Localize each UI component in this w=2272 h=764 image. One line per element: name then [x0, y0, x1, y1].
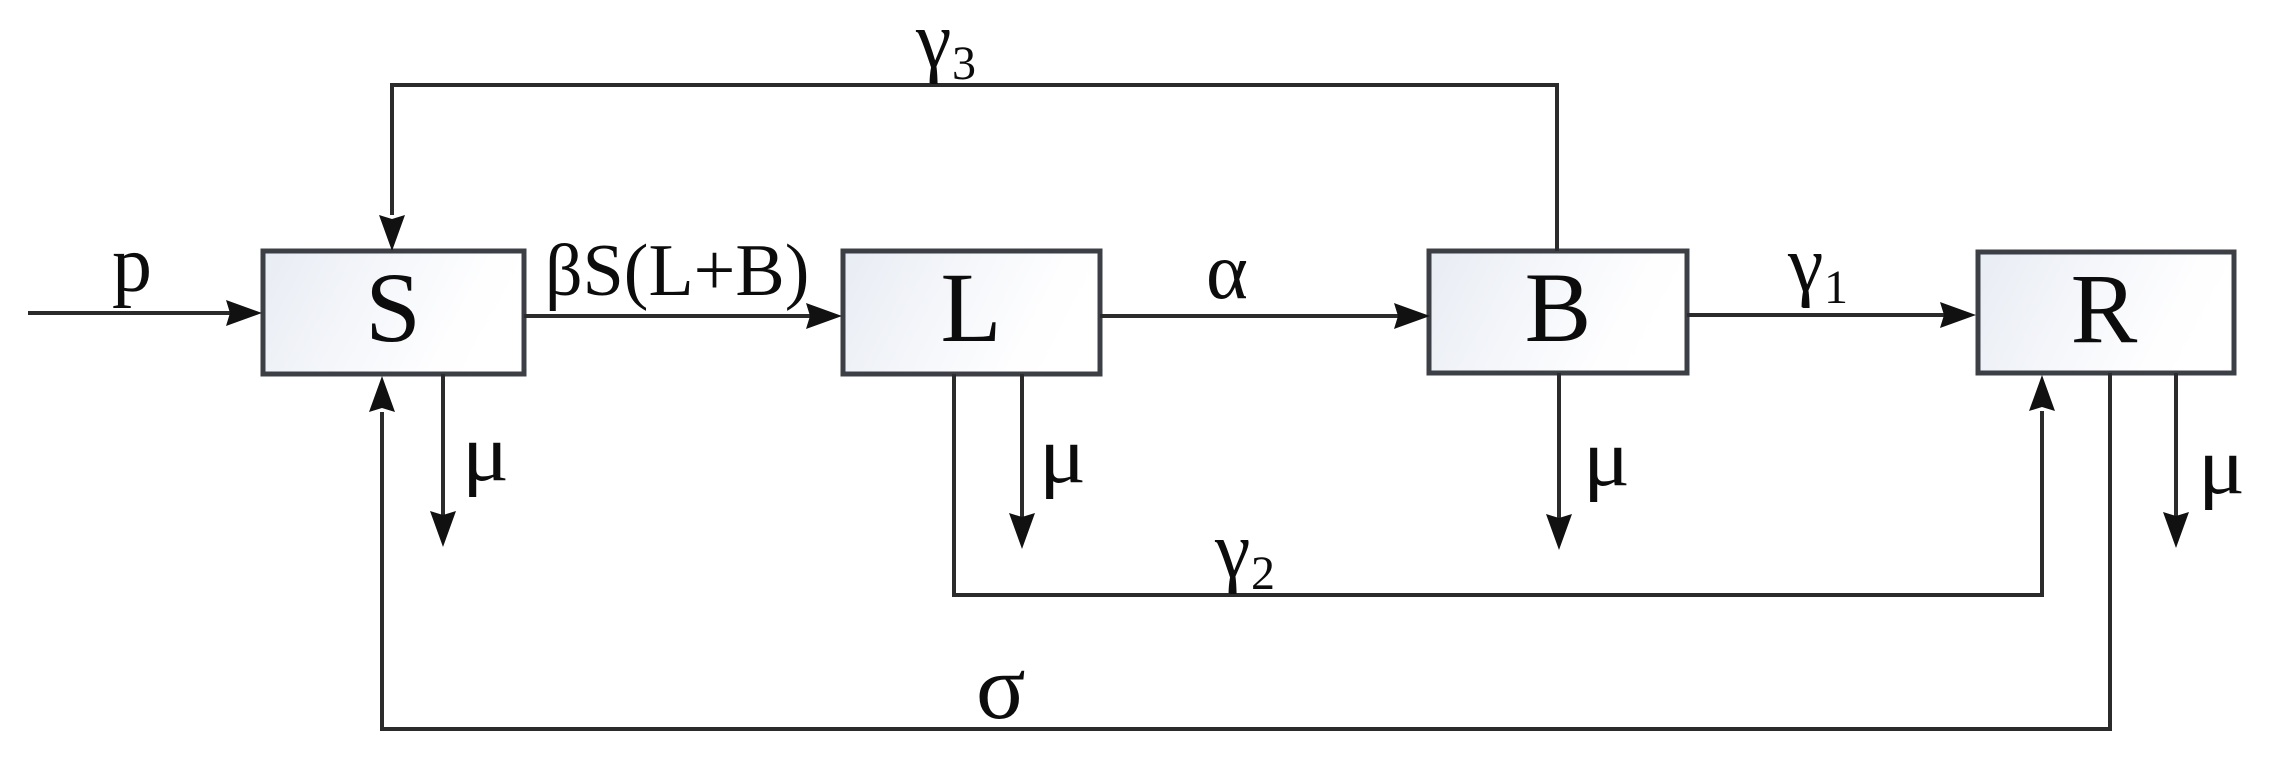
- wire sigma from R bottom to S bottom: [382, 373, 2110, 729]
- arrow mu out of L: [1020, 374, 1024, 517]
- svg-text:μ: μ: [1583, 415, 1630, 503]
- svg-text:μ: μ: [2198, 423, 2245, 511]
- svg-text:σ: σ: [976, 636, 1026, 738]
- svg-text:γ: γ: [915, 0, 951, 85]
- arrow p into S: [28, 311, 230, 315]
- svg-text:2: 2: [1251, 547, 1275, 600]
- svg-text:μ: μ: [462, 410, 509, 498]
- arrow mu out of B: [1557, 373, 1561, 518]
- arrowhead sigma into S bottom: [369, 376, 395, 412]
- svg-text:R: R: [2071, 253, 2138, 364]
- wire gamma2 from L bottom to R bottom: [954, 374, 2042, 595]
- svg-text:1: 1: [1824, 261, 1848, 314]
- svg-text:p: p: [112, 221, 152, 309]
- arrow B to R: [1687, 313, 1944, 317]
- svg-text:S: S: [365, 252, 421, 363]
- svg-text:γ: γ: [1787, 221, 1823, 309]
- svg-text:γ: γ: [1214, 507, 1250, 595]
- node S box: [263, 251, 524, 374]
- wire gamma3 feedback from B top: [392, 85, 1557, 251]
- svg-text:L: L: [940, 252, 1001, 363]
- arrowhead gamma2 into R bottom: [2029, 375, 2055, 411]
- node R box: [1978, 252, 2234, 373]
- svg-text:3: 3: [952, 37, 976, 90]
- svg-text:βS(L+B): βS(L+B): [545, 230, 809, 312]
- arrow mu out of R: [2174, 373, 2178, 516]
- arrow L to B: [1100, 314, 1398, 318]
- node B box: [1429, 251, 1687, 373]
- node L box: [843, 251, 1100, 374]
- arrow mu out of S: [441, 374, 445, 515]
- arrowhead gamma3 into S top: [379, 215, 405, 251]
- arrow S to L: [524, 314, 810, 318]
- svg-text:B: B: [1525, 252, 1592, 363]
- svg-text:α: α: [1206, 228, 1248, 316]
- svg-text:μ: μ: [1039, 412, 1086, 500]
